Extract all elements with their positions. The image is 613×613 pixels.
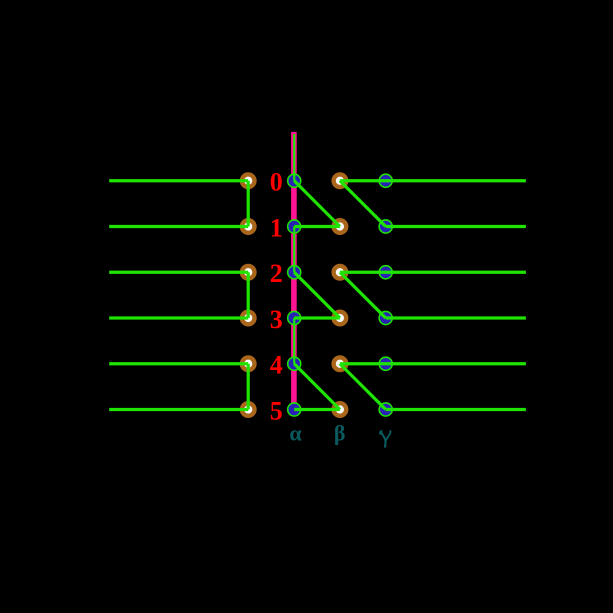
svg-text:4: 4 — [270, 351, 283, 380]
svg-text:0: 0 — [270, 168, 283, 197]
svg-text:3: 3 — [270, 305, 283, 334]
svg-text:5: 5 — [270, 396, 283, 425]
svg-text:β: β — [334, 421, 346, 446]
svg-text:2: 2 — [270, 259, 283, 288]
svg-text:1: 1 — [270, 213, 283, 242]
svg-text:α: α — [289, 421, 302, 446]
